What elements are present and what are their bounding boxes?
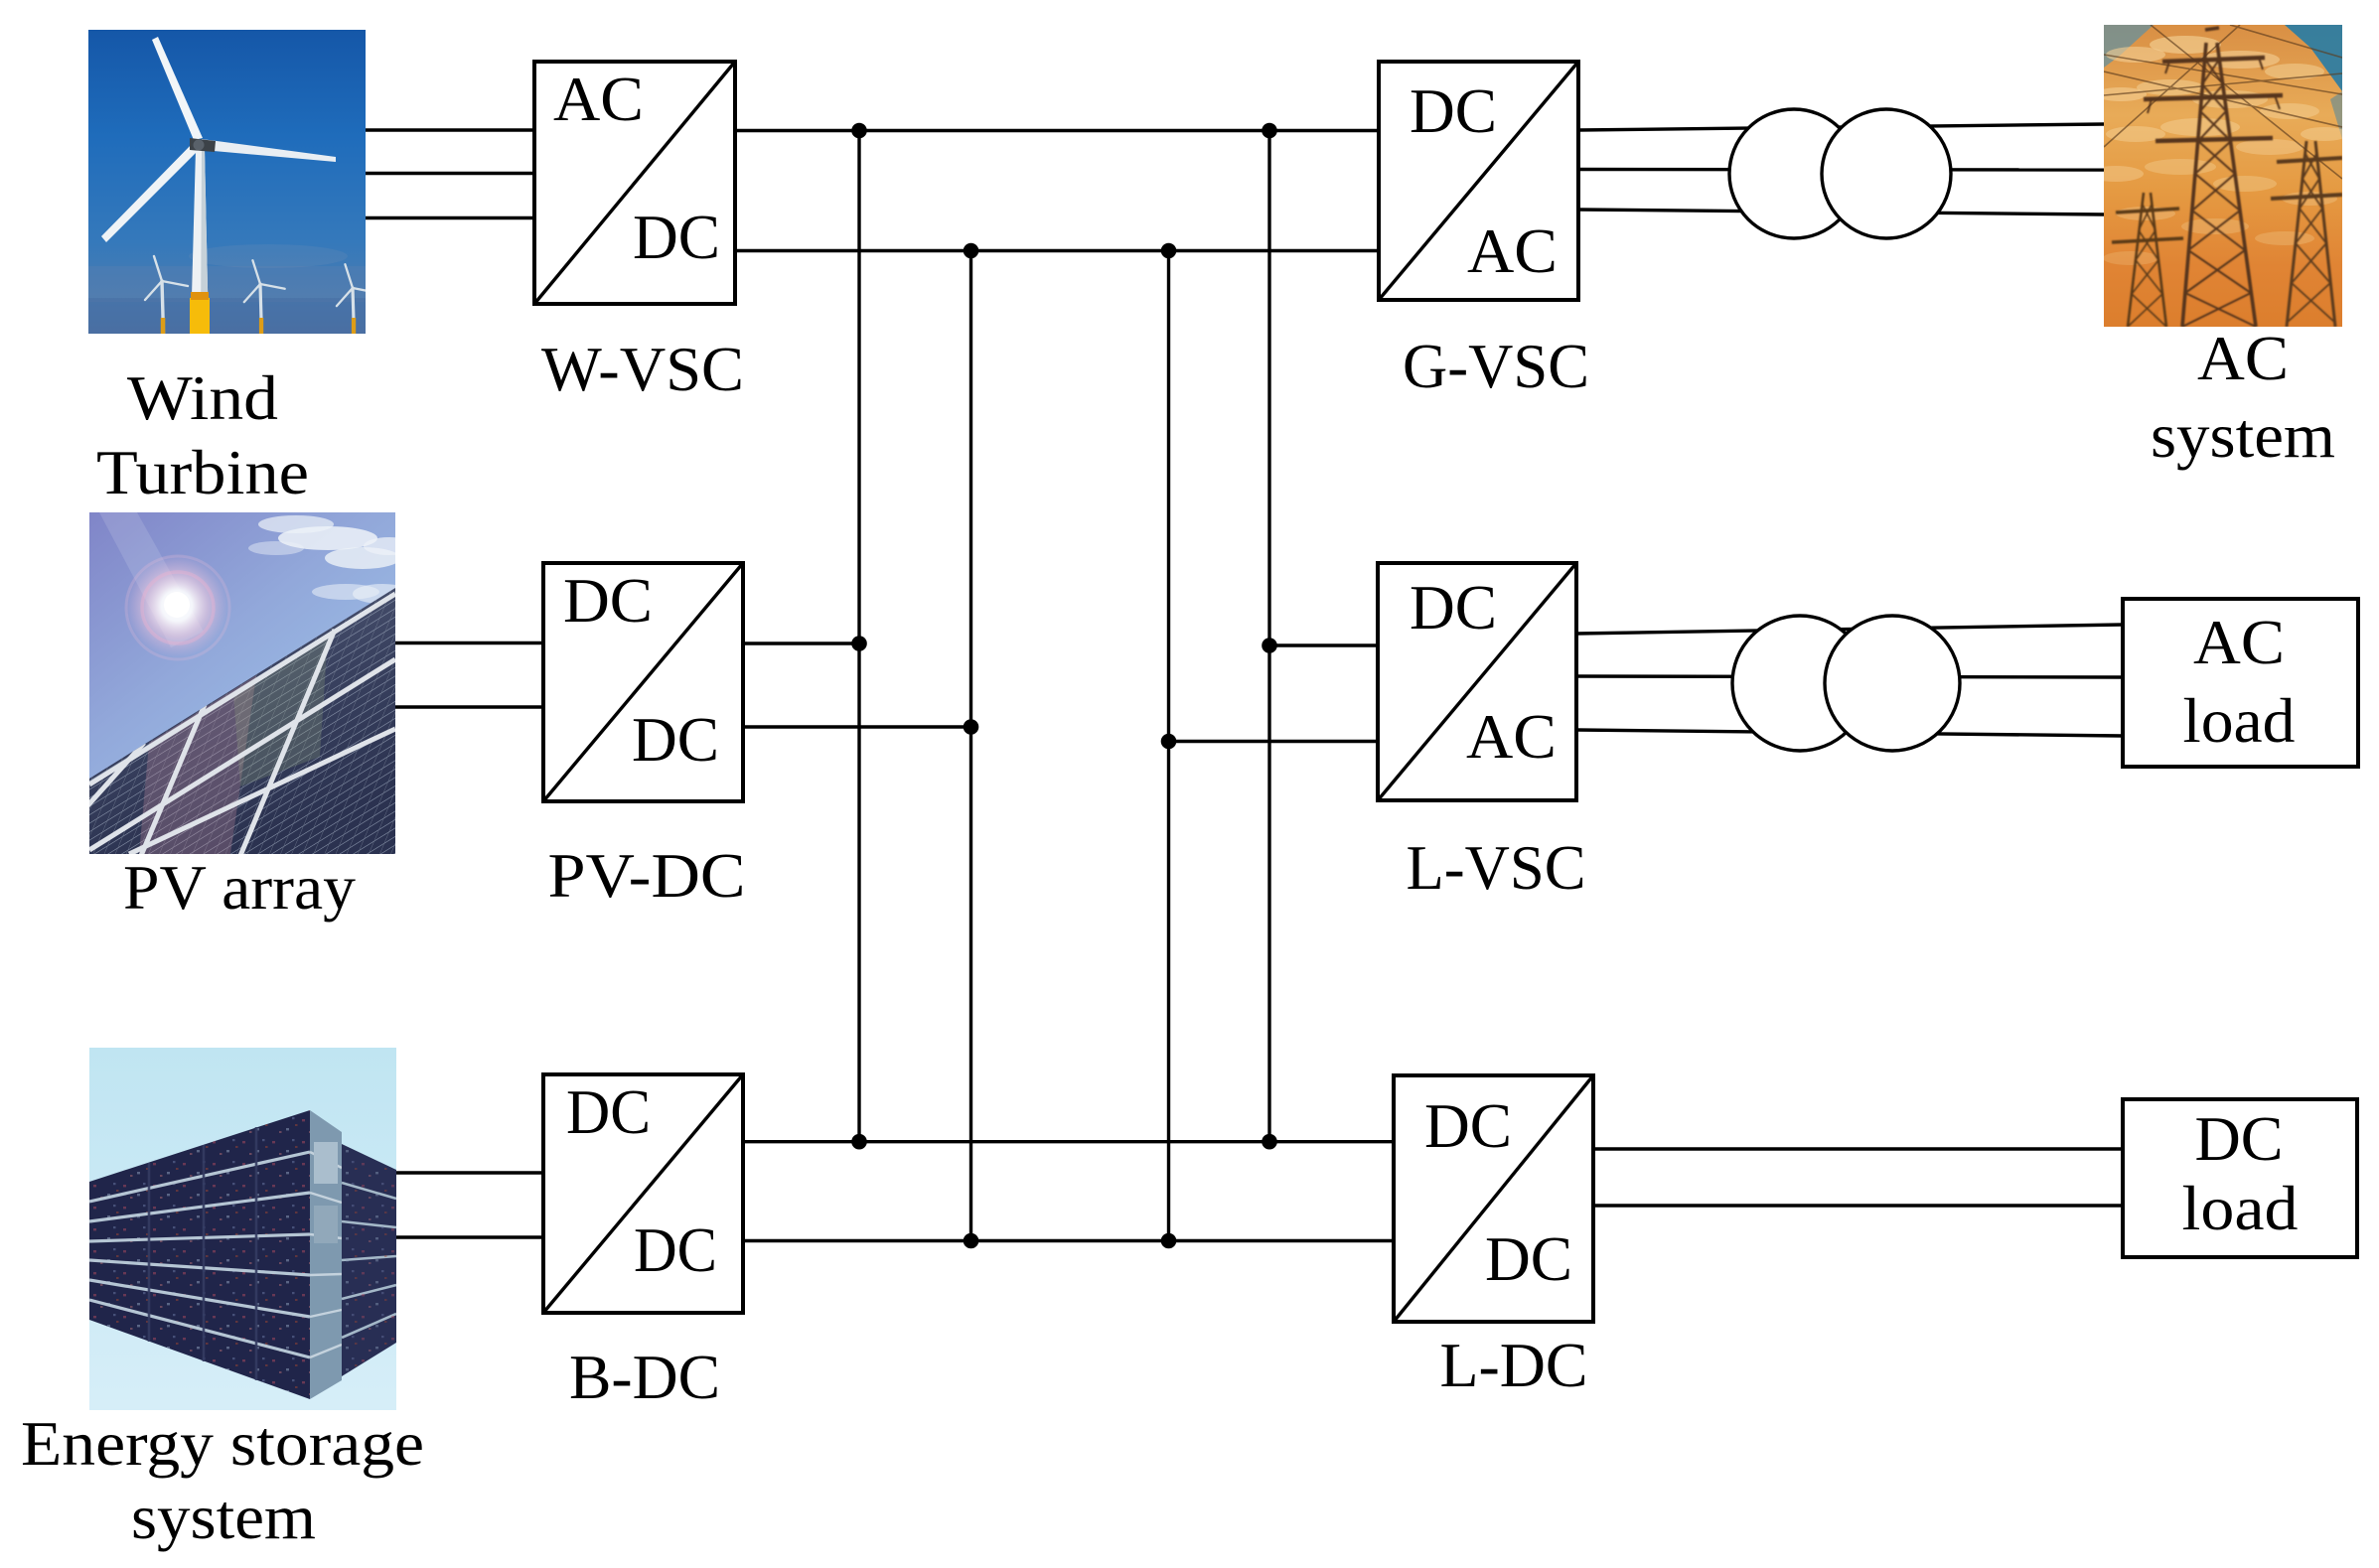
wire: PV-DC output positive bbox=[743, 641, 859, 644]
svg-text:load: load bbox=[2182, 1173, 2299, 1243]
svg-text:W-VSC: W-VSC bbox=[541, 334, 744, 404]
svg-text:L-VSC: L-VSC bbox=[1407, 832, 1586, 903]
svg-text:load: load bbox=[2183, 685, 2296, 756]
wire: B-DC to L-DC negative bbox=[743, 1239, 1394, 1242]
wire: L-VSC input negative bbox=[1169, 740, 1379, 743]
svg-text:DC: DC bbox=[563, 565, 653, 636]
junction node J7 bbox=[1262, 638, 1277, 653]
svg-text:DC: DC bbox=[634, 1214, 717, 1285]
wire: PV-DC output negative bbox=[743, 725, 971, 728]
junction node J6 bbox=[964, 719, 979, 735]
junction node J12 bbox=[1161, 1233, 1177, 1249]
wire: G-VSC to AC system phase c bbox=[1578, 210, 2104, 214]
converter W-VSC bbox=[534, 62, 735, 304]
wire: L-VSC to AC load phase a bbox=[1576, 625, 2123, 634]
wire: battery to B-DC bottom bbox=[396, 1235, 543, 1238]
junction node J11 bbox=[964, 1233, 979, 1249]
junction node J8 bbox=[1161, 734, 1177, 750]
wire: B-DC to L-DC positive bbox=[743, 1140, 1394, 1143]
junction node J5 bbox=[851, 636, 867, 651]
converter PV-DC bbox=[543, 563, 743, 801]
converter L-DC bbox=[1394, 1075, 1593, 1322]
wire: L-VSC to AC load phase c bbox=[1576, 730, 2123, 736]
junction node J1 bbox=[851, 123, 867, 139]
AC load box bbox=[2123, 599, 2358, 767]
svg-text:AC: AC bbox=[1467, 215, 1558, 286]
PV array photo bbox=[41, 512, 415, 858]
wire: L-DC to DC load positive bbox=[1593, 1147, 2123, 1150]
svg-text:DC: DC bbox=[633, 202, 720, 272]
wire: vertical DC bus V3 bbox=[1167, 251, 1170, 1241]
wire: wind turbine to W-VSC phase a bbox=[366, 128, 534, 131]
wire: G-VSC to AC system phase b bbox=[1578, 168, 2104, 172]
svg-text:B-DC: B-DC bbox=[569, 1342, 720, 1412]
junction node J10 bbox=[1262, 1134, 1277, 1150]
svg-text:system: system bbox=[2151, 400, 2335, 471]
svg-text:DC: DC bbox=[632, 704, 719, 775]
svg-text:Energy storage: Energy storage bbox=[21, 1408, 424, 1479]
wire: PV array to PV-DC top bbox=[395, 641, 543, 644]
svg-text:PV-DC: PV-DC bbox=[548, 840, 746, 911]
svg-text:AC: AC bbox=[553, 64, 644, 134]
svg-text:system: system bbox=[131, 1482, 316, 1552]
wire: L-VSC to AC load phase b bbox=[1576, 676, 2123, 677]
transformer T2 (AC load side) bbox=[1732, 616, 1960, 751]
junction node J2 bbox=[1262, 123, 1277, 139]
wire: DC bus positive W-VSC to G-VSC bbox=[735, 129, 1379, 132]
wire: vertical DC bus V2 bbox=[969, 251, 972, 1241]
wire: wind turbine to W-VSC phase c bbox=[366, 216, 534, 219]
wind turbine photo bbox=[88, 30, 377, 334]
svg-text:G-VSC: G-VSC bbox=[1403, 331, 1589, 401]
wire: vertical DC bus V4 bbox=[1267, 131, 1270, 1142]
converter L-VSC bbox=[1378, 563, 1576, 800]
svg-text:DC: DC bbox=[1410, 572, 1497, 642]
svg-text:Wind: Wind bbox=[127, 362, 278, 433]
converter G-VSC bbox=[1379, 62, 1578, 300]
DC load box bbox=[2123, 1099, 2357, 1257]
AC system photo bbox=[2088, 25, 2348, 327]
svg-text:DC: DC bbox=[1410, 75, 1497, 146]
svg-text:AC: AC bbox=[1466, 701, 1557, 772]
svg-text:AC: AC bbox=[2197, 323, 2289, 393]
wire: G-VSC to AC system phase a bbox=[1578, 124, 2104, 130]
junction node J9 bbox=[851, 1134, 867, 1150]
svg-text:DC: DC bbox=[1485, 1223, 1572, 1294]
wire: wind turbine to W-VSC phase b bbox=[366, 172, 534, 175]
svg-text:Turbine: Turbine bbox=[96, 437, 309, 507]
svg-text:L-DC: L-DC bbox=[1440, 1330, 1588, 1400]
wire: DC bus negative W-VSC to G-VSC bbox=[735, 249, 1379, 252]
svg-text:DC: DC bbox=[566, 1076, 651, 1147]
energy storage photo bbox=[89, 1048, 396, 1410]
wire: PV array to PV-DC bottom bbox=[395, 705, 543, 708]
svg-text:DC: DC bbox=[1424, 1090, 1512, 1161]
wire: battery to B-DC top bbox=[396, 1171, 543, 1174]
wire: L-VSC input positive bbox=[1269, 643, 1378, 646]
svg-text:DC: DC bbox=[2195, 1103, 2284, 1174]
converter B-DC bbox=[543, 1074, 743, 1313]
wire: L-DC to DC load negative bbox=[1593, 1204, 2123, 1207]
junction node J3 bbox=[964, 243, 979, 259]
junction node J4 bbox=[1161, 243, 1177, 259]
svg-text:AC: AC bbox=[2193, 607, 2285, 677]
wire: vertical DC bus V1 bbox=[857, 131, 860, 1142]
svg-text:PV array: PV array bbox=[123, 852, 356, 923]
transformer T1 (grid side) bbox=[1729, 109, 1951, 238]
